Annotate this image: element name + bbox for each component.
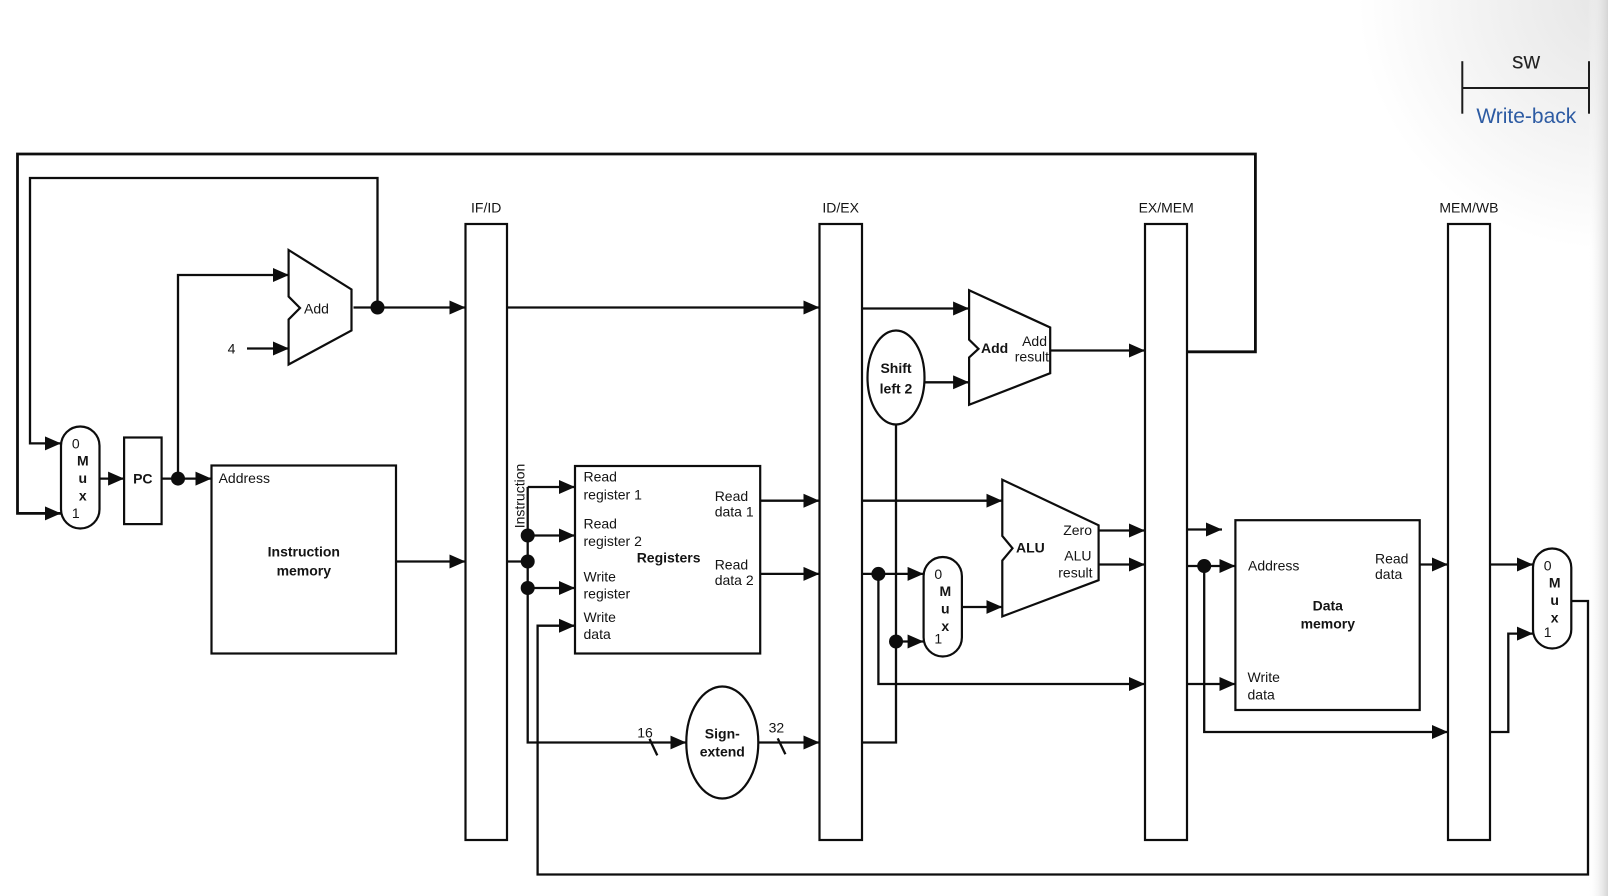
svg-text:Address: Address <box>1248 558 1299 574</box>
svg-text:u: u <box>1550 592 1559 608</box>
svg-text:Read: Read <box>584 515 617 531</box>
svg-text:M: M <box>939 583 951 599</box>
svg-text:sw: sw <box>1512 48 1541 74</box>
svg-text:16: 16 <box>637 725 653 741</box>
svg-text:Write: Write <box>584 609 617 625</box>
svg-text:EX/MEM: EX/MEM <box>1139 200 1194 216</box>
svg-text:0: 0 <box>72 436 80 452</box>
svg-text:IF/ID: IF/ID <box>471 200 501 216</box>
svg-text:register 1: register 1 <box>584 487 643 503</box>
svg-text:Write: Write <box>1248 669 1281 685</box>
svg-text:data: data <box>1248 687 1275 703</box>
svg-text:u: u <box>941 601 950 617</box>
svg-text:4: 4 <box>228 341 236 357</box>
svg-text:data: data <box>584 626 611 642</box>
svg-text:PC: PC <box>133 471 152 487</box>
svg-text:Write-back: Write-back <box>1476 105 1576 128</box>
svg-text:Sign-: Sign- <box>705 726 740 742</box>
svg-text:Read: Read <box>584 469 617 485</box>
svg-text:register 2: register 2 <box>584 533 643 549</box>
svg-text:Address: Address <box>219 470 270 486</box>
svg-text:result: result <box>1015 349 1049 365</box>
svg-text:Read: Read <box>715 488 748 504</box>
svg-text:data 1: data 1 <box>715 503 754 519</box>
svg-text:left 2: left 2 <box>880 380 913 396</box>
svg-text:x: x <box>79 488 87 504</box>
svg-text:M: M <box>77 453 89 469</box>
svg-text:0: 0 <box>1544 558 1552 574</box>
svg-text:1: 1 <box>72 505 80 521</box>
svg-text:Zero: Zero <box>1063 522 1092 538</box>
svg-text:Add: Add <box>1022 333 1047 349</box>
svg-text:memory: memory <box>277 563 332 579</box>
svg-text:Read: Read <box>715 557 748 573</box>
svg-text:memory: memory <box>1301 616 1356 632</box>
svg-text:ALU: ALU <box>1064 548 1091 564</box>
svg-text:Add: Add <box>981 340 1008 356</box>
svg-text:x: x <box>1551 610 1559 626</box>
svg-text:x: x <box>941 618 949 634</box>
svg-text:MEM/WB: MEM/WB <box>1439 200 1498 216</box>
svg-text:Write: Write <box>584 569 617 585</box>
svg-text:ID/EX: ID/EX <box>822 200 859 216</box>
svg-text:ALU: ALU <box>1016 540 1045 556</box>
svg-text:Add: Add <box>304 301 329 317</box>
svg-text:u: u <box>79 470 88 486</box>
svg-text:1: 1 <box>934 631 942 647</box>
svg-text:Registers: Registers <box>637 550 701 566</box>
svg-text:Shift: Shift <box>880 360 911 376</box>
svg-text:Read: Read <box>1375 551 1408 567</box>
svg-text:32: 32 <box>769 720 785 736</box>
svg-text:data: data <box>1375 566 1402 582</box>
svg-text:M: M <box>1549 575 1561 591</box>
svg-text:Instruction: Instruction <box>268 544 340 560</box>
svg-text:0: 0 <box>934 566 942 582</box>
svg-text:register: register <box>584 586 631 602</box>
svg-text:Instruction: Instruction <box>512 464 528 529</box>
svg-text:1: 1 <box>1544 624 1552 640</box>
svg-text:result: result <box>1058 565 1092 581</box>
svg-text:extend: extend <box>700 744 745 760</box>
svg-text:Data: Data <box>1313 598 1344 614</box>
svg-text:data 2: data 2 <box>715 572 754 588</box>
